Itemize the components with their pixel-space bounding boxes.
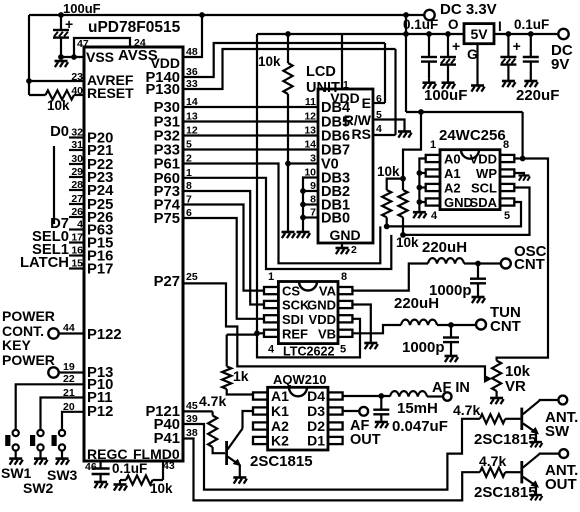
svg-text:VDD: VDD (150, 55, 180, 71)
svg-text:D1: D1 (307, 433, 325, 449)
svg-text:19: 19 (63, 361, 75, 373)
svg-text:D4: D4 (307, 388, 325, 404)
svg-text:A2: A2 (444, 181, 461, 196)
svg-text:POWER: POWER (2, 308, 55, 324)
svg-text:CNT: CNT (514, 256, 545, 273)
svg-text:46: 46 (85, 461, 97, 473)
svg-text:REF: REF (282, 326, 308, 341)
svg-text:DB0: DB0 (321, 211, 350, 227)
svg-text:P122: P122 (87, 327, 122, 343)
svg-text:10k: 10k (47, 98, 70, 113)
svg-text:E: E (362, 95, 371, 111)
svg-text:4.7k: 4.7k (453, 402, 480, 418)
svg-text:43: 43 (163, 460, 175, 472)
svg-text:8: 8 (503, 139, 509, 151)
svg-text:A1: A1 (271, 388, 289, 404)
svg-text:I: I (498, 19, 502, 34)
svg-text:POWER: POWER (2, 352, 55, 368)
svg-text:100uF: 100uF (63, 1, 101, 16)
svg-text:12: 12 (304, 111, 316, 123)
svg-text:AQW210: AQW210 (273, 372, 326, 387)
svg-text:P17: P17 (87, 262, 113, 278)
svg-text:VR: VR (505, 378, 526, 395)
svg-text:D3: D3 (307, 403, 325, 419)
svg-text:VA: VA (319, 284, 337, 299)
svg-text:RS: RS (352, 126, 371, 142)
svg-text:1: 1 (268, 271, 274, 283)
svg-text:SDI: SDI (282, 312, 304, 327)
svg-text:REGC: REGC (87, 446, 127, 462)
svg-text:CNT: CNT (490, 318, 521, 335)
svg-text:P27: P27 (154, 274, 180, 290)
svg-text:4: 4 (431, 210, 438, 222)
svg-text:32: 32 (71, 127, 83, 139)
svg-text:28: 28 (71, 179, 83, 191)
svg-text:VDD: VDD (470, 152, 497, 167)
svg-text:uPD78F0515: uPD78F0515 (88, 19, 181, 36)
svg-text:2SC1815: 2SC1815 (474, 431, 537, 448)
svg-text:20: 20 (63, 401, 75, 413)
svg-text:16: 16 (71, 245, 83, 257)
svg-text:5V: 5V (470, 26, 488, 42)
svg-text:LATCH: LATCH (20, 255, 69, 271)
svg-text:1k: 1k (233, 368, 249, 384)
svg-text:5: 5 (340, 344, 346, 356)
svg-text:0.1uF: 0.1uF (403, 17, 438, 32)
svg-text:AF IN: AF IN (432, 380, 470, 396)
svg-text:1000p: 1000p (402, 339, 445, 356)
svg-text:VSS: VSS (86, 49, 114, 65)
svg-text:30: 30 (71, 153, 83, 165)
svg-text:24WC256: 24WC256 (439, 127, 506, 144)
svg-text:RESET: RESET (87, 85, 134, 101)
svg-text:2: 2 (351, 244, 357, 256)
svg-text:VB: VB (318, 326, 336, 341)
svg-text:100uF: 100uF (424, 87, 467, 104)
svg-text:21: 21 (63, 387, 75, 399)
svg-text:15: 15 (71, 258, 83, 270)
svg-text:29: 29 (71, 166, 83, 178)
svg-text:8: 8 (341, 271, 347, 283)
svg-text:220uH: 220uH (394, 295, 439, 312)
svg-text:10k: 10k (396, 235, 419, 250)
svg-text:D0: D0 (50, 124, 69, 140)
svg-text:4: 4 (268, 344, 275, 356)
svg-text:45: 45 (186, 400, 198, 412)
svg-text:11: 11 (305, 96, 316, 108)
svg-text:P12: P12 (87, 404, 113, 420)
svg-text:A0: A0 (444, 152, 461, 167)
svg-text:K2: K2 (271, 433, 289, 449)
svg-text:+: + (452, 38, 460, 54)
svg-text:CS: CS (282, 284, 300, 299)
svg-text:P75: P75 (154, 211, 180, 227)
svg-text:4: 4 (376, 123, 382, 135)
svg-text:22: 22 (63, 373, 75, 385)
svg-text:WP: WP (476, 166, 497, 181)
svg-text:4: 4 (77, 219, 83, 231)
svg-text:40: 40 (71, 85, 83, 97)
svg-text:A1: A1 (444, 166, 461, 181)
svg-text:27: 27 (71, 193, 83, 205)
svg-text:4.7k: 4.7k (199, 393, 226, 409)
svg-text:SDA: SDA (470, 195, 498, 210)
svg-text:P41: P41 (154, 431, 180, 447)
svg-text:2SC1815: 2SC1815 (250, 453, 313, 470)
svg-text:2SC1815: 2SC1815 (474, 484, 537, 501)
svg-text:LCD: LCD (306, 64, 336, 80)
svg-text:G: G (467, 46, 478, 62)
svg-text:0.1uF: 0.1uF (112, 461, 147, 476)
svg-text:SW1: SW1 (1, 465, 32, 481)
svg-text:VDD: VDD (309, 312, 336, 327)
svg-text:38: 38 (186, 427, 198, 439)
svg-text:GND: GND (444, 195, 473, 210)
svg-text:1: 1 (430, 139, 436, 151)
svg-text:44: 44 (63, 322, 75, 334)
svg-text:10k: 10k (258, 54, 281, 69)
svg-text:31: 31 (71, 139, 83, 151)
svg-text:25: 25 (186, 271, 198, 283)
svg-text:10k: 10k (150, 481, 173, 496)
svg-text:O: O (448, 17, 459, 32)
svg-text:OUT: OUT (350, 432, 381, 448)
svg-text:SCL: SCL (471, 181, 497, 196)
svg-text:GND: GND (307, 298, 336, 313)
svg-text:+: + (513, 38, 521, 54)
svg-text:4.7k: 4.7k (479, 453, 506, 469)
svg-text:23: 23 (71, 71, 83, 83)
svg-text:SW3: SW3 (47, 467, 78, 483)
svg-text:K1: K1 (271, 403, 289, 419)
svg-text:GND: GND (329, 227, 360, 243)
svg-text:9V: 9V (551, 56, 569, 73)
svg-text:17: 17 (71, 232, 83, 244)
svg-text:KEY: KEY (2, 337, 31, 353)
svg-text:+: + (65, 16, 73, 32)
svg-text:DC 3.3V: DC 3.3V (440, 1, 497, 18)
svg-text:0.1uF: 0.1uF (514, 17, 549, 32)
svg-text:P130: P130 (145, 82, 180, 98)
svg-text:5: 5 (504, 210, 510, 222)
svg-text:OUT: OUT (545, 476, 577, 493)
svg-text:0.047uF: 0.047uF (392, 418, 448, 435)
svg-text:15mH: 15mH (397, 400, 438, 417)
svg-text:220uH: 220uH (422, 239, 467, 256)
svg-text:13: 13 (304, 125, 316, 137)
svg-text:14: 14 (304, 139, 316, 151)
svg-text:SCK: SCK (282, 298, 310, 313)
svg-text:10k: 10k (377, 164, 400, 179)
svg-text:220uF: 220uF (516, 87, 559, 104)
svg-text:26: 26 (71, 206, 83, 218)
svg-text:SW: SW (545, 423, 570, 440)
